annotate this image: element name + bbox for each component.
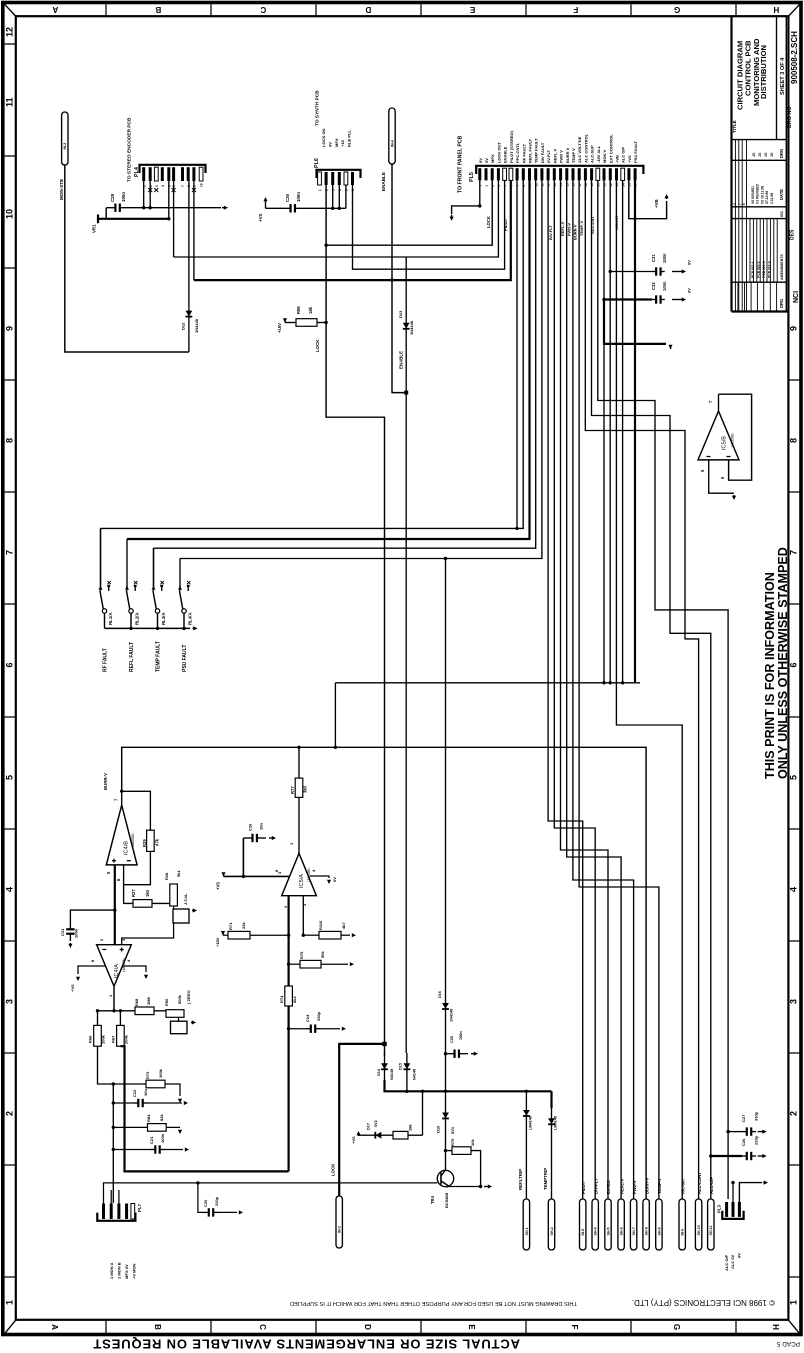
svg-text:DRG: DRG: [779, 299, 784, 308]
op-amp IC4/B: [106, 805, 137, 865]
node pl3 pin2: [731, 1181, 734, 1184]
svg-text:2.11.98: 2.11.98: [770, 193, 774, 204]
connector PL5 pin 25: [627, 168, 630, 180]
svg-text:ALC O/P: ALC O/P: [724, 1254, 729, 1271]
wire pl4 pin1: [143, 181, 145, 208]
connector PL5 pin 23: [615, 168, 618, 180]
svg-text:ONLY UNLESS OTHERWISE STAMPED: ONLY UNLESS OTHERWISE STAMPED: [776, 547, 790, 779]
svg-text:F: F: [573, 5, 578, 14]
wire c32 arrow: [672, 297, 686, 301]
zone tick right: [788, 379, 799, 381]
node burrv: [120, 790, 123, 793]
zone tick left: [5, 716, 16, 718]
svg-text:19: 19: [590, 183, 594, 187]
svg-text:IN-4: IN-4: [390, 140, 394, 147]
svg-text:5: 5: [5, 775, 15, 780]
svg-text:100n: 100n: [74, 928, 79, 938]
svg-text:ALC CONTROL: ALC CONTROL: [583, 133, 588, 163]
svg-text:D15: D15: [399, 1063, 403, 1070]
wire pl3 pin2: [732, 1183, 734, 1202]
wire r66 up: [97, 1011, 99, 1026]
connector PL4 pin 9: [192, 167, 195, 181]
wire pl5 pin1 0v: [452, 180, 480, 214]
wire 0v pl4: [129, 207, 221, 209]
net label TEMPTRIP pill: [548, 1199, 554, 1250]
connector PL5 pin 8: [522, 168, 525, 180]
op-amp IC4/A: [97, 945, 132, 987]
svg-text:22: 22: [609, 183, 613, 187]
connector PL5 pin 18: [584, 168, 587, 180]
wire +vs stub: [265, 204, 267, 208]
wire c32 0v branch: [604, 300, 666, 344]
wire pl3 pin3 arrow: [739, 1183, 762, 1202]
svg-text:100k: 100k: [158, 1068, 163, 1078]
arrow c22 0v: [184, 1101, 188, 1105]
wire extec drop: [561, 180, 609, 1199]
title block line v776: [776, 17, 778, 140]
wire pl4 pin5: [168, 181, 170, 219]
wire fwdv drop: [573, 180, 634, 1199]
wire pl4 pin9: [193, 181, 195, 280]
svg-text:THIS PRINT IS FOR INFORMATION: THIS PRINT IS FOR INFORMATION: [763, 572, 777, 779]
zone tick left: [5, 491, 16, 493]
svg-text:DES: DES: [790, 229, 796, 240]
wire bus 682: [335, 682, 640, 684]
arrow ic4a 0v: [144, 975, 148, 979]
wire relay up rl3: [153, 548, 155, 589]
relay contact RL4/A: [178, 581, 190, 628]
wire ic5b loop: [719, 394, 752, 480]
title block line v786: [785, 17, 787, 312]
svg-text:C25: C25: [450, 1036, 454, 1043]
wire ic4a in3: [122, 923, 174, 945]
node tr4 base tap: [196, 1181, 199, 1184]
zone tick right: [788, 716, 799, 718]
svg-text:+15V: +15V: [215, 937, 220, 947]
node relay common a: [129, 627, 132, 630]
node enable join: [404, 391, 408, 395]
svg-text:I/V-FLT: I/V-FLT: [546, 149, 551, 163]
node monv: [602, 681, 605, 684]
svg-text:MPX: MPX: [334, 138, 339, 147]
svg-text:C24: C24: [305, 1014, 310, 1022]
wire r27 right: [152, 902, 170, 904]
svg-text:6: 6: [5, 662, 15, 667]
connector PL5 pin 26: [634, 168, 637, 180]
capacitor C26b: [742, 1152, 756, 1160]
node lock r96: [324, 321, 327, 324]
capacitor C22: [133, 1099, 148, 1107]
title block row y160: [732, 159, 787, 161]
wire r79 down: [471, 1151, 481, 1187]
svg-text:R74: R74: [279, 995, 284, 1003]
title block row y206: [732, 206, 787, 208]
capacitor C32: [652, 295, 665, 303]
net label FWD-V pill: [630, 1199, 636, 1250]
svg-text:R28: R28: [164, 872, 169, 880]
trimmer R50 box: [171, 1021, 188, 1033]
capacitor C31b: [66, 922, 74, 941]
svg-text:TITLE: TITLE: [732, 120, 737, 133]
connector PL3 bracket: [722, 1211, 743, 1219]
transistor TR4: [437, 1170, 480, 1188]
connector PL4 bracket: [140, 165, 206, 173]
rev table fine col: [769, 219, 771, 283]
wire mpx link: [406, 180, 498, 257]
svg-text:B/V-FLT: B/V-FLT: [593, 1178, 598, 1194]
connector PL5 bracket: [476, 166, 643, 174]
zone tick left: [5, 603, 16, 605]
arrow ic5a 0v: [327, 880, 331, 884]
svg-text:N4148: N4148: [390, 1069, 394, 1080]
net label PILOT pill: [580, 1199, 586, 1250]
svg-text:ALC-O/P: ALC-O/P: [709, 1177, 714, 1194]
zone tick left: [5, 155, 16, 157]
wire ic5b pin5: [709, 460, 734, 493]
connector PL5 pin 11: [540, 168, 543, 180]
svg-text:330p: 330p: [316, 1011, 321, 1021]
svg-text:8: 8: [5, 438, 15, 443]
svg-text:H: H: [773, 5, 779, 14]
zone tick left: [5, 379, 16, 381]
node r71: [287, 934, 290, 937]
net label ENABLE pill: [389, 108, 395, 164]
arrow +15v r71: [221, 931, 225, 935]
connector PL7 pin 2: [110, 1204, 113, 1220]
svg-text:6: 6: [742, 203, 746, 205]
resistor R81: [393, 1131, 408, 1139]
svg-text:SHEET 3 OF 4: SHEET 3 OF 4: [780, 57, 786, 95]
wire ic5a inm: [288, 896, 290, 1172]
wire alcop drop: [592, 180, 711, 1199]
node ppc: [515, 527, 518, 530]
diode D13 enable: [403, 257, 410, 341]
zone tick right: [788, 940, 799, 942]
svg-text:D: D: [365, 5, 371, 14]
net label REFLTRIP pill: [523, 1199, 529, 1250]
node extc: [621, 681, 624, 684]
wire r71 right: [250, 934, 289, 936]
connector PL5 pin 5: [503, 168, 507, 180]
op-amp IC5/A: [282, 853, 317, 900]
arrow relay 0v: [193, 626, 198, 630]
svg-text:1N4148: 1N4148: [450, 1009, 454, 1022]
svg-text:R77: R77: [290, 786, 295, 794]
wire lock chain: [326, 245, 384, 1056]
svg-text:PSU FAULT: PSU FAULT: [633, 141, 638, 163]
net label B/V-FLT pill: [592, 1199, 598, 1250]
svg-text:C27: C27: [741, 1114, 746, 1122]
zone tick bottom: [630, 1320, 632, 1334]
node c25: [444, 1052, 447, 1055]
svg-text:R71: R71: [228, 922, 233, 930]
svg-text:0V: 0V: [687, 288, 692, 293]
svg-text:1N4148: 1N4148: [194, 318, 199, 333]
svg-text:100n: 100n: [459, 1031, 463, 1040]
svg-text:LM4148: LM4148: [529, 1116, 533, 1130]
node lock sq: [382, 1042, 386, 1046]
capacitor C26: [243, 834, 266, 842]
wire c30 right: [333, 207, 346, 209]
svg-text:R79: R79: [450, 1138, 455, 1146]
svg-text:RF FAULT: RF FAULT: [521, 143, 526, 163]
svg-text:LOCK: LOCK: [330, 1163, 335, 1176]
net label REFL-V pill: [618, 1199, 624, 1250]
wire tempv drop: [579, 180, 659, 1199]
svg-text:15: 15: [565, 183, 569, 187]
wire c21 row: [113, 1149, 150, 1151]
svg-text:D13: D13: [398, 310, 403, 318]
svg-text:23: 23: [615, 183, 619, 187]
svg-text:D17: D17: [367, 1123, 371, 1130]
wire c30 mid: [320, 207, 333, 209]
svg-text:A: A: [50, 1324, 59, 1330]
svg-text:3: 3: [5, 999, 15, 1004]
resistor R71: [228, 931, 250, 939]
wire r79 left: [446, 1150, 453, 1152]
corner diagonal top-left: [5, 4, 17, 16]
wire r67 down thick: [120, 1046, 288, 1171]
node lock-on: [324, 244, 327, 247]
svg-text:12: 12: [5, 27, 15, 37]
diode D8 refltrip: [523, 1091, 530, 1135]
svg-text:9k1: 9k1: [176, 870, 181, 877]
zone tick bottom: [315, 1320, 317, 1334]
svg-text:C26: C26: [741, 1138, 746, 1146]
wire ic5b out: [718, 394, 720, 411]
svg-text:MON-STE: MON-STE: [59, 179, 64, 200]
arrow +vs ic5a: [221, 872, 225, 876]
title block row y139: [732, 139, 787, 141]
diode D15 enable: [404, 1053, 411, 1080]
rev table col: [734, 140, 736, 312]
arrow r75 0v: [350, 962, 354, 966]
connector PL5 pin 17: [578, 168, 581, 180]
connector PL4 pin 6: [172, 167, 175, 181]
svg-text:R96: R96: [296, 306, 301, 314]
capacitor C21: [150, 1145, 165, 1153]
svg-text:SH-1: SH-1: [525, 1227, 529, 1235]
capacitor C28: [106, 204, 129, 212]
connector PL5 pin 13: [553, 168, 556, 180]
node r66 top: [96, 1009, 99, 1012]
wire c26 row: [711, 1155, 742, 1157]
title block bottom edge: [732, 310, 789, 312]
svg-text:LM4148: LM4148: [554, 1116, 558, 1130]
svg-text:JG: JG: [752, 152, 756, 157]
wire bvflt drop: [554, 180, 595, 1199]
wire ic4b pin5: [114, 865, 116, 945]
svg-text:G: G: [672, 1324, 681, 1330]
wire monv drop: [603, 180, 605, 682]
wire pl6 pin4: [338, 185, 340, 208]
node psu tee: [444, 557, 447, 560]
svg-text:R75: R75: [299, 951, 304, 959]
svg-text:R68: R68: [134, 998, 139, 1006]
wire r75 row: [289, 963, 300, 965]
connector PL6 pin 5: [344, 172, 348, 185]
svg-text:100n: 100n: [296, 192, 301, 202]
svg-text:7: 7: [181, 185, 185, 187]
connector PL5 pin 19: [590, 168, 593, 180]
wire r84 right: [166, 1126, 180, 1128]
connector PL7 pin 4: [125, 1204, 128, 1220]
wire ppc: [516, 180, 518, 528]
svg-text:6V2: 6V2: [374, 1120, 378, 1127]
connector PL3 pin 1: [725, 1202, 728, 1217]
svg-text:V1 REVISED: V1 REVISED: [756, 183, 760, 204]
node pl6 b: [338, 207, 341, 210]
net label EXTEC pill: [605, 1199, 611, 1250]
connector PL7 pin 3: [117, 1204, 120, 1220]
wire psu chain: [445, 559, 447, 1092]
svg-text:BURR V: BURR V: [565, 147, 570, 163]
connector PL5 pin 14: [559, 168, 562, 180]
zone tick top: [630, 4, 632, 16]
wire zener right: [408, 1134, 423, 1136]
svg-text:LM358N: LM358N: [131, 833, 135, 847]
wire ic5a inp: [302, 896, 304, 936]
arrow ic5b 0v: [732, 495, 736, 500]
svg-text:IN-5: IN-5: [581, 1229, 585, 1236]
zone tick right: [788, 828, 799, 830]
rev table col: [746, 140, 748, 312]
wire zener left: [359, 1134, 371, 1136]
svg-text:+VS: +VS: [70, 984, 75, 992]
svg-text:MPX 0V: MPX 0V: [124, 1264, 129, 1279]
svg-text:PILOT (STEREO): PILOT (STEREO): [509, 130, 514, 163]
node enable tee: [390, 278, 393, 281]
wire enable main: [194, 180, 511, 280]
svg-text:SH-2: SH-2: [550, 1227, 554, 1235]
svg-text:9: 9: [789, 326, 799, 331]
svg-text:SH-5: SH-5: [606, 1227, 610, 1235]
arrow r84 0v: [178, 1130, 182, 1134]
svg-text:ALC-CNT: ALC-CNT: [590, 216, 595, 234]
wire ic4b fb2: [124, 851, 151, 884]
node c27: [726, 1130, 729, 1133]
svg-text:RF FAULT: RF FAULT: [103, 648, 109, 672]
arrow 0v branch: [668, 345, 672, 349]
svg-text:SH-10: SH-10: [697, 1225, 701, 1235]
svg-text:PCB ISS:2: PCB ISS:2: [756, 261, 760, 278]
node relay common b: [156, 627, 159, 630]
svg-text:ISS: ISS: [780, 211, 784, 217]
connector PL5 pin 21: [603, 168, 606, 180]
wire temptrip down: [551, 1135, 553, 1199]
svg-text:7: 7: [5, 550, 15, 555]
svg-text:+VS: +VS: [216, 882, 221, 890]
connector PL5 pin 4: [497, 168, 500, 180]
rev table fine col: [756, 219, 758, 283]
svg-text:BC546B: BC546B: [444, 1193, 449, 1208]
svg-text:IC5/B: IC5/B: [722, 436, 728, 450]
resistor R77: [295, 778, 303, 797]
rev table fine col: [749, 219, 751, 283]
resistor R75: [300, 960, 321, 968]
svg-text:REFL FAULT: REFL FAULT: [528, 138, 533, 163]
svg-text:TEMP-V: TEMP-V: [657, 1178, 662, 1194]
node c32 tap: [602, 298, 605, 301]
wire reflv drop: [567, 180, 621, 1199]
arrow tr4 0v: [484, 1184, 492, 1188]
diode D12: [186, 181, 193, 352]
connector PL5 pin 12: [547, 168, 550, 180]
svg-text:PCB ISS:4: PCB ISS:4: [768, 261, 772, 278]
svg-text:ENABLE: ENABLE: [381, 172, 386, 191]
svg-text:SH-9: SH-9: [657, 1227, 661, 1235]
svg-text:SH-11: SH-11: [709, 1226, 713, 1236]
zone tick bottom: [105, 1320, 107, 1334]
svg-text:RL3/A: RL3/A: [161, 611, 166, 625]
svg-text:+VB: +VB: [615, 155, 620, 163]
diode D16: [442, 1003, 449, 1009]
node pl4 a: [142, 206, 145, 209]
svg-text:RLB PLL: RLB PLL: [347, 130, 352, 147]
svg-text:R67: R67: [111, 1035, 116, 1043]
svg-text:V0 ISSUED: V0 ISSUED: [751, 186, 755, 204]
wire pilot drop: [548, 180, 583, 1199]
wire c31 row: [610, 271, 652, 273]
svg-text:22k: 22k: [241, 922, 246, 929]
svg-text:PL5: PL5: [469, 172, 475, 182]
svg-text:R84: R84: [146, 1114, 151, 1122]
connector PL6 bracket: [317, 170, 361, 178]
svg-text:SH-6: SH-6: [620, 1227, 624, 1235]
resistor R66: [94, 1025, 102, 1046]
svg-text:ALC 0V: ALC 0V: [730, 1254, 735, 1269]
wire r110 right: [341, 934, 350, 936]
svg-text:DISTRIBUTION: DISTRIBUTION: [759, 45, 768, 99]
resistor R74: [285, 986, 293, 1006]
wire ic4a out: [113, 986, 115, 1011]
wire r71 left: [223, 934, 228, 936]
svg-text:RL1/A: RL1/A: [108, 611, 113, 625]
wire vr1 bus: [106, 218, 169, 220]
node r77 tap: [297, 746, 300, 749]
node lb c22: [112, 1101, 115, 1104]
node alcop c31: [609, 270, 612, 273]
connector PL3 pin 3: [738, 1202, 741, 1217]
svg-text:SH-7: SH-7: [632, 1227, 636, 1235]
connector PL4 pin 8: [187, 167, 190, 181]
svg-text:REFLTRIP: REFLTRIP: [518, 1169, 523, 1190]
wire alccont drop: [585, 180, 698, 1199]
wire r50 wiper: [178, 1017, 180, 1021]
corner diagonal bottom-right: [788, 1320, 800, 1334]
wire relay up rl1: [100, 528, 102, 589]
node r75: [287, 963, 290, 966]
svg-text:+VS: +VS: [627, 155, 632, 163]
zone tick left: [5, 828, 16, 830]
zone tick bottom: [525, 1320, 527, 1334]
svg-text:D16: D16: [438, 991, 442, 998]
svg-text:11: 11: [5, 97, 15, 107]
node c26 tap: [242, 875, 245, 878]
svg-text:C28: C28: [110, 193, 115, 202]
resistor R79: [452, 1147, 471, 1155]
rev table col: [741, 140, 743, 312]
svg-text:ACTUAL SIZE OR ENLARGEMENTS AV: ACTUAL SIZE OR ENLARGEMENTS AVAILABLE ON…: [93, 1336, 520, 1351]
svg-text:0V: 0V: [327, 142, 332, 147]
svg-text:R27: R27: [131, 889, 136, 897]
svg-text:3k0: 3k0: [303, 785, 308, 793]
zone tick bottom: [735, 1320, 737, 1334]
node r79: [444, 1149, 447, 1152]
net label MON-STE pill: [62, 112, 68, 165]
svg-text:330p: 330p: [754, 1111, 759, 1121]
wire c20 right: [219, 1211, 237, 1213]
